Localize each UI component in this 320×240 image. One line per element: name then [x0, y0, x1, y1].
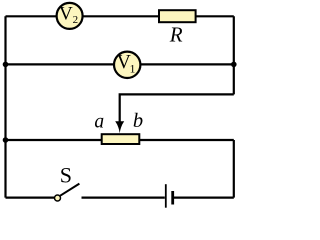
svg-text:2: 2 [73, 14, 79, 26]
svg-text:b: b [133, 110, 143, 132]
svg-text:a: a [94, 111, 104, 132]
svg-text:R: R [169, 23, 183, 47]
svg-text:1: 1 [130, 61, 136, 75]
svg-text:S: S [60, 162, 72, 187]
svg-text:V: V [59, 4, 73, 25]
